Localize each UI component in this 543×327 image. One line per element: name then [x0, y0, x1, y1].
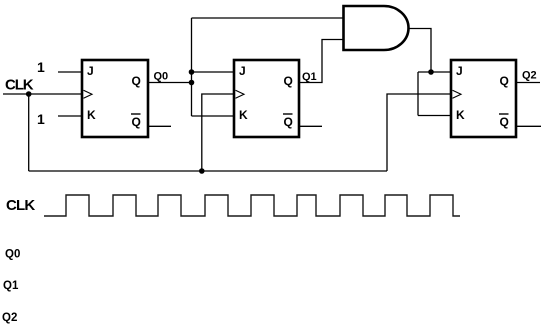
svg-text:CLK: CLK: [6, 197, 35, 214]
wire 1 to FF1 K: [58, 115, 82, 117]
svg-text:J: J: [456, 64, 463, 78]
wire U3 Qbar stub: [516, 125, 541, 127]
node Q0 on vertical: [189, 80, 195, 86]
svg-text:J: J: [87, 64, 94, 78]
node clock rail junction to FF2: [199, 168, 205, 174]
svg-text:Q0: Q0: [5, 249, 20, 261]
svg-text:1: 1: [37, 59, 45, 75]
svg-text:Q0: Q0: [154, 71, 169, 83]
wire Q0 to AND gate top input: [192, 17, 344, 19]
wire FF3 K input line: [418, 115, 451, 117]
svg-text:Q: Q: [284, 74, 293, 88]
AND gate: [344, 6, 409, 50]
flip-flop U2 box: [234, 60, 299, 137]
svg-text:Q1: Q1: [302, 71, 317, 83]
svg-text:1: 1: [37, 111, 45, 127]
wire clock rail (bottom horizontal): [29, 170, 387, 172]
node CLK junction: [26, 91, 32, 97]
wire CLK junction down to clock rail: [28, 94, 30, 171]
svg-text:Q: Q: [132, 74, 141, 88]
svg-text:Q: Q: [500, 115, 509, 129]
wire Q0 to FF2 J: [192, 71, 235, 73]
wire Q0 to FF2 K: [192, 115, 235, 117]
svg-text:Q: Q: [284, 115, 293, 129]
svg-text:K: K: [87, 108, 96, 122]
wire rail up to FF2 clock: [202, 94, 234, 171]
svg-text:K: K: [456, 108, 465, 122]
wire FF3 J input line: [418, 71, 451, 73]
wire rail up to FF3 clock: [387, 94, 451, 171]
clock triangle (U1): [84, 90, 93, 98]
node Q0 to FF2 J junction: [189, 69, 195, 75]
svg-text:Q: Q: [132, 115, 141, 129]
clock triangle (U2): [236, 90, 245, 98]
svg-text:Q2: Q2: [2, 312, 17, 324]
flip-flop U1 box: [82, 60, 148, 137]
svg-text:Q1: Q1: [3, 280, 19, 292]
wire U1 Qbar stub: [148, 125, 171, 127]
wire Q0 vertical (up to AND input, down to FF2 K): [191, 18, 193, 116]
wire U2 Q output to AND bottom input: [299, 40, 344, 83]
wire 1 to FF1 J: [58, 71, 82, 73]
svg-text:Q2: Q2: [522, 70, 537, 82]
wire CLK input to FF1 clock: [3, 93, 82, 95]
CLK waveform: [44, 195, 460, 216]
svg-text:Q: Q: [500, 74, 509, 88]
clock triangle (U3): [453, 90, 462, 98]
wire FF3 J-K tie vertical: [417, 72, 419, 116]
wire U2 Qbar stub: [299, 125, 322, 127]
wire U3 Q output: [516, 82, 540, 84]
wire U1 Q output to vertical bus: [148, 82, 192, 84]
node AND output junction on FF3 J line: [428, 69, 434, 75]
flip-flop U3 box: [451, 60, 516, 137]
svg-text:CLK: CLK: [5, 77, 34, 94]
svg-text:K: K: [239, 108, 248, 122]
svg-text:J: J: [239, 64, 246, 78]
wire AND output to FF3 J/K: [409, 29, 432, 73]
